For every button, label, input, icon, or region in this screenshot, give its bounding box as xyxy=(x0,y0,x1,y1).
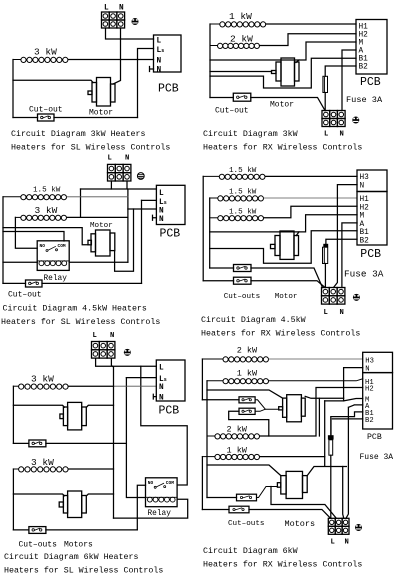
wire coil1 to PCB H1 xyxy=(266,23,356,25)
wire left vertical B xyxy=(206,381,208,498)
svg-text:L: L xyxy=(324,309,328,317)
wire bus to cut-out xyxy=(210,98,325,111)
svg-text:N: N xyxy=(340,131,344,139)
wire motor2 M row xyxy=(307,401,346,476)
svg-text:Ls: Ls xyxy=(159,199,167,207)
wire M link to motor2 xyxy=(318,398,320,436)
svg-text:N: N xyxy=(119,5,124,13)
thermal cut-out xyxy=(233,93,251,101)
wire N to terminal col2 xyxy=(325,368,363,401)
wire coil 1kW to PCB H1 xyxy=(269,379,363,381)
svg-text:3 kW: 3 kW xyxy=(31,374,54,385)
thermal cut-out D xyxy=(229,506,249,513)
thermal cut-out A xyxy=(239,397,255,403)
wire L stub and row to PCB xyxy=(96,358,157,366)
wire B2 row xyxy=(332,418,363,420)
wire motor2 feed row xyxy=(207,465,281,476)
wire motor stub feed xyxy=(3,228,88,245)
svg-text:1.5 kW: 1.5 kW xyxy=(229,189,257,197)
svg-text:Motor: Motor xyxy=(89,109,113,118)
motor M6 (upper) xyxy=(60,402,86,430)
wire coil2 output to N line xyxy=(69,468,114,470)
wire coilB to PCB H1 (thin) xyxy=(264,197,357,199)
svg-text:L: L xyxy=(93,332,97,340)
svg-text:H3: H3 xyxy=(360,174,370,182)
thermal cut-out 1 xyxy=(29,440,46,447)
wire left vertical xyxy=(2,197,4,284)
fuse 3A xyxy=(329,440,333,455)
svg-text:H1: H1 xyxy=(359,24,369,32)
svg-text:N: N xyxy=(157,67,162,75)
wire coilC to PCB H2 xyxy=(264,206,357,218)
svg-text:Circuit Diagram 3kW: Circuit Diagram 3kW xyxy=(203,129,298,139)
wire left vertical xyxy=(209,24,211,98)
wire motor1 feed row xyxy=(13,405,64,407)
thermal cut-out B xyxy=(239,408,255,414)
wire L feed to PCB xyxy=(106,28,154,39)
wire cut-out B row left xyxy=(229,411,269,436)
wire cut-out D to terminal L xyxy=(249,510,331,519)
wire B1 path via motor bus xyxy=(210,231,357,263)
wire M row to motor tab xyxy=(296,232,299,236)
wire M row xyxy=(210,42,356,60)
svg-text:PCB: PCB xyxy=(360,248,381,261)
wire A to terminal col3 xyxy=(346,405,363,518)
PCB U6 lower xyxy=(363,373,393,429)
svg-text:A: A xyxy=(359,48,364,56)
wire fuse to terminal L xyxy=(330,455,332,518)
wire motor2 return to N line xyxy=(87,494,114,496)
heater coil 1.5 kW (B) xyxy=(210,196,264,201)
relay K1 xyxy=(37,241,69,271)
svg-text:N: N xyxy=(360,183,365,191)
thermal cut-out upper xyxy=(234,265,252,272)
wire Ls row xyxy=(126,377,156,379)
svg-text:N: N xyxy=(345,539,349,547)
svg-text:Motor: Motor xyxy=(270,101,294,110)
svg-text:L: L xyxy=(324,131,328,139)
thermal cut-out xyxy=(26,280,43,287)
svg-text:M: M xyxy=(360,213,365,221)
motor M8 (upper) xyxy=(279,395,305,422)
wire left vertical lower xyxy=(12,469,14,530)
wire L drop to relay COM xyxy=(141,366,187,485)
wire A to terminal col3 xyxy=(342,223,357,288)
wire left vertical A xyxy=(202,176,204,280)
svg-text:H2: H2 xyxy=(359,32,369,40)
svg-text:1.5 kW: 1.5 kW xyxy=(33,187,61,195)
fuse 3A xyxy=(323,247,328,263)
motor M1 xyxy=(88,78,115,107)
svg-text:COM: COM xyxy=(58,243,66,249)
wire branch to PCB Ls xyxy=(138,49,154,60)
wire M terminal diagonal xyxy=(344,399,363,401)
wire motor return to PCB N xyxy=(115,209,134,271)
PCB U5 xyxy=(156,360,185,401)
wire cut-out C row xyxy=(207,497,237,499)
svg-text:Cut–outs: Cut–outs xyxy=(224,293,260,301)
svg-text:Ls: Ls xyxy=(157,47,165,55)
wire motor feed row xyxy=(13,80,93,82)
wire L stub xyxy=(110,181,112,189)
wire Ls vertical to cut-out row xyxy=(141,200,143,283)
wire relay coil left xyxy=(3,261,37,263)
svg-text:3 kW: 3 kW xyxy=(31,457,54,468)
fuse 3A xyxy=(323,76,328,92)
wire drop to terminal col3 left xyxy=(343,467,344,519)
svg-text:N: N xyxy=(125,155,129,163)
svg-text:A: A xyxy=(360,221,365,229)
heater coil 3 kW (upper) xyxy=(13,384,68,389)
wire motor2 bus to terminal xyxy=(271,487,336,519)
svg-text:NO: NO xyxy=(40,243,46,249)
wire left vertical B xyxy=(209,198,211,268)
svg-text:Relay: Relay xyxy=(148,510,172,518)
svg-text:L: L xyxy=(159,190,164,198)
wire cut-out upper row xyxy=(210,268,323,288)
wire PCB N2 stub xyxy=(150,67,154,72)
wire L drop to coil1 lead xyxy=(80,189,82,217)
terminal block TB3 xyxy=(108,164,131,181)
svg-text:Motors: Motors xyxy=(64,541,93,550)
wire M row to motor tab xyxy=(296,60,299,63)
wire PCB N2 stub xyxy=(153,394,156,399)
wire motor2 feed row xyxy=(13,494,64,496)
svg-text:Heaters for RX Wireless Contro: Heaters for RX Wireless Controls xyxy=(203,143,362,153)
svg-text:N: N xyxy=(159,216,164,224)
wire L row to PCB xyxy=(81,188,157,190)
wire motor1 return to N line xyxy=(87,405,114,407)
wire motor stub feed xyxy=(210,71,272,73)
svg-text:Heaters for SL Wireless Contro: Heaters for SL Wireless Controls xyxy=(4,566,163,574)
terminal block TB4 xyxy=(322,288,345,305)
PCB U6 upper xyxy=(363,352,393,372)
wire left vertical upper xyxy=(12,386,14,443)
motor M2 xyxy=(272,58,300,86)
svg-text:2 kW: 2 kW xyxy=(237,346,258,356)
svg-text:Circuit Diagram 4.5kW Heaters: Circuit Diagram 4.5kW Heaters xyxy=(3,304,147,314)
wire N branch to PCB N xyxy=(128,208,156,210)
svg-text:B1: B1 xyxy=(360,229,370,237)
wire B2 drop to fuse (thin) xyxy=(331,419,333,439)
wire cut-out B to stub xyxy=(255,409,279,411)
heater coil 2 kW (bank1) xyxy=(202,357,268,362)
svg-text:1.5 kW: 1.5 kW xyxy=(229,167,257,175)
wire fuse to terminal L xyxy=(324,93,326,111)
svg-text:H3: H3 xyxy=(365,358,374,366)
thermal cut-out 2 xyxy=(29,527,46,534)
svg-text:PCB: PCB xyxy=(360,76,381,89)
svg-text:Cut–out: Cut–out xyxy=(8,291,42,300)
svg-text:2 kW: 2 kW xyxy=(227,425,248,435)
svg-text:Motor: Motor xyxy=(275,293,298,301)
svg-text:L: L xyxy=(159,365,164,373)
wire B1 path via motor bus xyxy=(210,58,356,88)
wire N to relay coil right xyxy=(114,499,188,518)
svg-text:Fuse 3A: Fuse 3A xyxy=(346,95,383,105)
svg-text:L: L xyxy=(157,38,162,46)
svg-text:N: N xyxy=(340,309,344,317)
PCB U1 xyxy=(154,35,182,72)
svg-text:Heaters for SL Wireless Contro: Heaters for SL Wireless Controls xyxy=(11,143,170,153)
wire B2 to fuse xyxy=(325,66,356,76)
wire coilA to PCB H3 xyxy=(265,175,357,177)
wire cut-out lower row xyxy=(203,281,325,288)
wire cut-out C to motor2 stub xyxy=(257,487,278,498)
svg-text:B2: B2 xyxy=(365,417,374,425)
fuse top junction dot xyxy=(328,435,334,439)
svg-text:B1: B1 xyxy=(359,56,369,64)
PCB U2 xyxy=(356,20,387,75)
thermal cut-out lower xyxy=(234,277,252,284)
wire Ls row xyxy=(142,199,157,201)
svg-text:1 kW: 1 kW xyxy=(227,446,248,456)
wire relay coil right to N xyxy=(69,261,128,263)
wire coil 2kW to PCB H3 (thin) xyxy=(269,358,363,360)
thermal cut-out xyxy=(38,114,55,121)
svg-text:Circuit Diagram 4.5kW: Circuit Diagram 4.5kW xyxy=(201,315,306,325)
svg-text:PCB: PCB xyxy=(158,83,179,96)
svg-text:2 kW: 2 kW xyxy=(230,34,253,45)
svg-text:Cut–outs: Cut–outs xyxy=(228,520,264,528)
wire coil2 output row to N line xyxy=(67,216,128,218)
svg-text:PCB: PCB xyxy=(160,228,181,241)
svg-text:Fuse 3A: Fuse 3A xyxy=(360,453,394,462)
wire coil2 to PCB H2 xyxy=(260,34,357,46)
svg-text:PCB: PCB xyxy=(159,405,180,418)
ground (mains earth dot) xyxy=(124,349,131,356)
svg-text:N: N xyxy=(159,384,164,392)
wire M row xyxy=(210,215,357,232)
wire N line from block to relay xyxy=(126,181,129,262)
svg-text:H2: H2 xyxy=(365,386,374,394)
wire cut-out D row left xyxy=(202,509,229,511)
wire coil3 to H2 via riser xyxy=(260,388,363,437)
svg-text:H2: H2 xyxy=(360,204,370,212)
heater coil 2 kW (bank2) xyxy=(207,434,260,439)
motor M9 (lower) xyxy=(277,471,307,498)
terminal block TB6 xyxy=(328,518,349,534)
svg-text:Fuse 3A: Fuse 3A xyxy=(344,269,384,280)
heater coil 1 kW (bank1) xyxy=(207,379,269,384)
wire left vertical xyxy=(12,60,14,118)
wire relay NO to cut-out 2 xyxy=(137,485,145,530)
wire branch down to bottom bus xyxy=(137,60,139,118)
terminal block TB1 xyxy=(102,12,125,28)
PCB U3 xyxy=(156,185,185,224)
svg-text:Heaters for SL Wireless Contro: Heaters for SL Wireless Controls xyxy=(1,317,160,327)
svg-text:N: N xyxy=(159,394,164,402)
wire motor1 to M row xyxy=(305,396,343,398)
wire motor1 feed row xyxy=(207,390,283,398)
wire N feed to motor xyxy=(113,28,121,84)
svg-text:Relay: Relay xyxy=(44,275,68,283)
ground (mains earth dot) xyxy=(353,294,360,301)
heater coil 3 kW xyxy=(15,215,66,220)
terminal block TB2 xyxy=(322,111,345,127)
wire bottom bus through cut-out xyxy=(13,117,138,119)
wire coil1 output (thin) to N line xyxy=(67,196,128,198)
svg-text:Circuit Diagram 6kW Heaters: Circuit Diagram 6kW Heaters xyxy=(4,552,138,562)
ground (earth circle) xyxy=(137,173,144,180)
wire PCB N2 stub xyxy=(153,215,157,220)
svg-text:H1: H1 xyxy=(360,196,370,204)
fuse top junction dot xyxy=(323,244,328,247)
wire cut-out row xyxy=(3,282,142,284)
relay K2 xyxy=(146,478,178,507)
wire B2 to fuse xyxy=(326,239,357,244)
heater coil 3 kW xyxy=(13,57,68,62)
heater coil 1.5 kW (C) xyxy=(210,216,264,221)
svg-text:B2: B2 xyxy=(359,64,369,72)
svg-text:Cut–out: Cut–out xyxy=(29,106,63,115)
PCB U4 lower xyxy=(357,192,387,246)
heater coil 1 kW xyxy=(210,22,266,27)
wire cut-out A to stub xyxy=(255,400,265,409)
svg-text:Cut–out: Cut–out xyxy=(215,107,249,116)
wire A to terminal N xyxy=(342,50,356,111)
wire cut-out 1 row xyxy=(13,442,126,444)
heater coil 1 kW (bank2) xyxy=(202,454,259,459)
wire PCB N1 thin row xyxy=(114,385,157,387)
heater coil 2 kW xyxy=(210,43,260,48)
wire coil1 output to N line xyxy=(69,385,114,387)
svg-text:M: M xyxy=(359,40,364,48)
wire Ls vertical to relay coil left xyxy=(126,378,145,498)
svg-text:N: N xyxy=(159,207,164,215)
wire N line from block down xyxy=(111,358,113,518)
svg-text:Circuit Diagram 3kW Heaters: Circuit Diagram 3kW Heaters xyxy=(11,129,145,139)
svg-text:PCB: PCB xyxy=(367,433,382,442)
heater coil 1.5 kW (A) xyxy=(203,174,265,179)
wire coil2 lead down to relay NO xyxy=(15,217,37,248)
svg-text:B2: B2 xyxy=(360,238,370,246)
wire N to terminal col2 xyxy=(334,185,358,288)
svg-text:Motors: Motors xyxy=(285,519,316,529)
svg-text:Cut–outs: Cut–outs xyxy=(19,541,58,550)
wire B1 path to fuse top xyxy=(331,412,363,436)
wire cut-out 2 row xyxy=(13,529,137,531)
svg-text:L: L xyxy=(108,155,112,163)
heater coil 3 kW (lower) xyxy=(13,467,68,472)
wire left vertical A xyxy=(201,359,203,400)
svg-text:1.5 kW: 1.5 kW xyxy=(229,209,257,217)
svg-text:L: L xyxy=(104,5,109,13)
svg-text:Heaters for RX Wireless Contro: Heaters for RX Wireless Controls xyxy=(203,560,362,570)
svg-text:N: N xyxy=(110,332,114,340)
wire coil output row to PCB N xyxy=(68,59,153,61)
motor M5 xyxy=(271,231,299,259)
svg-text:N: N xyxy=(157,58,162,66)
svg-text:1 kW: 1 kW xyxy=(229,11,252,22)
motor M7 (lower) xyxy=(59,491,86,518)
svg-text:Heaters for RX Wireless Contro: Heaters for RX Wireless Controls xyxy=(201,329,360,339)
PCB U4 upper xyxy=(357,170,387,192)
svg-text:1 kW: 1 kW xyxy=(237,369,258,379)
wire fuse to terminal L xyxy=(324,264,326,288)
svg-text:COM: COM xyxy=(166,480,174,486)
ground (mains earth dot) xyxy=(352,117,359,124)
wire left vertical A lower xyxy=(201,457,203,510)
thermal cut-out C xyxy=(237,494,257,501)
motor M3 xyxy=(88,230,115,256)
svg-text:Ls: Ls xyxy=(159,376,167,384)
ground (mains earth dot) xyxy=(132,18,139,25)
svg-text:NO: NO xyxy=(148,480,154,486)
svg-text:3 kW: 3 kW xyxy=(34,47,57,58)
svg-text:L: L xyxy=(331,539,335,547)
terminal block TB5 xyxy=(92,342,115,359)
wire COM row xyxy=(3,232,64,242)
svg-text:Motor: Motor xyxy=(90,222,113,230)
wire coil4 output to N vertical xyxy=(260,456,325,458)
heater coil 1.5 kW xyxy=(3,195,67,200)
svg-text:Circuit Diagram 6kW: Circuit Diagram 6kW xyxy=(203,546,298,556)
ground (mains earth dot) xyxy=(355,524,362,531)
svg-text:3 kW: 3 kW xyxy=(35,205,58,216)
wire cut-out A row left xyxy=(202,399,239,401)
